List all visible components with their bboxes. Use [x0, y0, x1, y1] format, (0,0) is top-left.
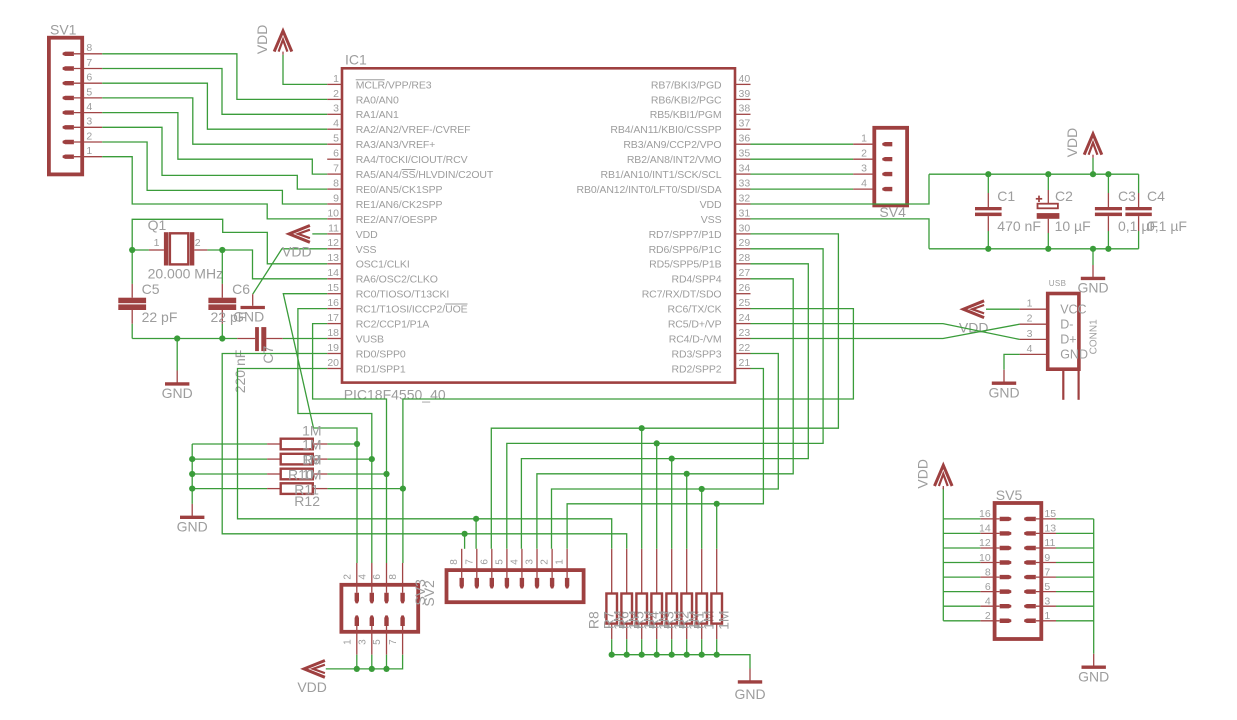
svg-text:3: 3	[357, 639, 368, 645]
wire IC pin33 to SV4 pin 4	[751, 188, 854, 190]
wire R col vertical from bus row	[641, 428, 643, 549]
SV5 pin 14 stub	[980, 532, 999, 534]
SV5 pin 13 stub	[1036, 532, 1056, 534]
resistor R8 1M (vertical)	[611, 549, 613, 594]
node junction on R rail	[189, 471, 195, 477]
svg-text:R1: R1	[691, 611, 707, 629]
wire SV5 pin 15 to GND rail	[1056, 518, 1094, 520]
IC1 left pin 20 stub	[327, 368, 342, 370]
svg-text:7: 7	[333, 163, 339, 175]
wire R6 bottom to gnd rail	[641, 639, 643, 655]
svg-text:7: 7	[464, 559, 475, 565]
svg-text:15: 15	[327, 282, 339, 294]
SV1 pin 1 contact	[63, 155, 74, 159]
wire SV5 pin 3 to GND rail	[1056, 605, 1094, 607]
SV4 pin 1 stub	[853, 143, 874, 145]
SV5 pin 3 contact	[1024, 604, 1036, 608]
svg-text:VDD: VDD	[356, 229, 378, 241]
wire SV5 GND rail	[1093, 519, 1095, 654]
svg-text:12: 12	[979, 537, 991, 549]
IC1 left pin 19 stub	[327, 353, 342, 355]
wire IC pin28 (RD5) to SV2 pin4 / R col5	[521, 264, 808, 549]
IC1 left pin 17 stub	[327, 323, 342, 325]
IC1 left pin 13 stub	[327, 263, 342, 265]
wire R12 left lead rail	[192, 488, 267, 490]
wire gnd rail to GND symbol	[176, 339, 178, 371]
svg-text:R7: R7	[601, 611, 617, 629]
svg-text:5: 5	[1044, 581, 1050, 593]
wire SV1.1 to IC pin10 (RE2)	[102, 157, 327, 219]
svg-text:1: 1	[555, 559, 566, 565]
svg-text:RE0/AN5/CK1SPP: RE0/AN5/CK1SPP	[356, 184, 443, 196]
svg-text:37: 37	[739, 118, 751, 130]
node junction R array gnd rail	[714, 652, 720, 658]
svg-text:28: 28	[739, 252, 751, 264]
node junction R9 tee on SV3 pin2 drop	[354, 441, 360, 447]
wire gnd stem from bottom rail	[1092, 249, 1094, 265]
IC1 right pin 26 stub	[735, 293, 751, 295]
power VDD arrow at cap rail	[1084, 134, 1102, 155]
svg-text:VCC: VCC	[1060, 302, 1086, 316]
IC1 left pin 14 stub	[327, 278, 342, 280]
wire R5 bottom to gnd rail	[656, 639, 658, 655]
IC1 right pin 37 stub	[735, 128, 751, 130]
IC1 right pin 25 stub	[735, 308, 751, 310]
SV5 pin 15 contact	[1024, 517, 1036, 521]
svg-text:1: 1	[1044, 610, 1050, 622]
IC1 right pin 28 stub	[735, 263, 751, 265]
IC1 left pin 8 stub	[327, 188, 342, 190]
capacitor C4 0,1 µF	[1138, 174, 1140, 193]
SV5 pin 14 contact	[1000, 531, 1012, 535]
node junction R array gnd rail	[669, 652, 675, 658]
wire SV3 bottom pins to VDD rail	[356, 655, 358, 669]
wire SV1.2 to IC pin9 (RE1)	[102, 142, 327, 204]
svg-text:GND: GND	[988, 384, 1019, 400]
wire R10 right lead to SV3 drop	[327, 458, 371, 460]
IC1 right pin 22 stub	[735, 353, 751, 355]
ground GND small (VSS)	[252, 294, 254, 306]
SV1 pin 4 stub	[74, 112, 102, 114]
wire IC pin31 (VSS) to cap rail	[751, 219, 930, 249]
svg-text:PIC18F4550_40: PIC18F4550_40	[344, 386, 446, 402]
power VDD flag at IC pin11	[289, 226, 310, 243]
IC1 right pin 23 stub	[735, 338, 751, 340]
svg-text:1: 1	[1027, 298, 1033, 310]
wire IC pin23 (RC4/D-) to CONN1 D- (crossing)	[751, 324, 1020, 338]
SV2 pin 3 contact	[535, 578, 539, 589]
svg-text:RC2/CCP1/P1A: RC2/CCP1/P1A	[356, 319, 430, 331]
wire C7 to IC pin18 (VUSB)	[283, 338, 328, 340]
connector CONN1 USB body	[1048, 294, 1079, 370]
IC1 right pin 29 stub	[735, 248, 751, 250]
wire crystal pin2 down to C6	[221, 250, 223, 284]
svg-text:23: 23	[739, 327, 751, 339]
SV2 pin 3 stub	[536, 549, 538, 578]
resistor R9 1M	[267, 443, 281, 445]
svg-text:7: 7	[86, 57, 92, 69]
svg-text:40: 40	[739, 73, 751, 85]
svg-text:2: 2	[86, 130, 92, 142]
SV3 pin 7 contact	[400, 615, 404, 626]
svg-text:4: 4	[509, 559, 520, 565]
IC1 left pin 12 stub	[327, 248, 342, 250]
CONN1 shield legs	[1062, 369, 1064, 400]
svg-text:GND: GND	[177, 518, 208, 534]
svg-text:3: 3	[1044, 595, 1050, 607]
svg-text:USB: USB	[1049, 279, 1067, 288]
wire R11 right lead to SV3 drop	[327, 473, 386, 475]
wire crystal pin1 down to C5	[131, 250, 133, 284]
wire R array gnd rail	[612, 655, 750, 669]
svg-text:3: 3	[86, 116, 92, 128]
svg-text:6: 6	[333, 148, 339, 160]
SV1 pin 8 stub	[74, 53, 102, 55]
node junction on R col	[639, 425, 645, 431]
node junction R array gnd rail	[639, 652, 645, 658]
svg-text:R12: R12	[294, 493, 320, 509]
svg-text:VUSB: VUSB	[356, 333, 384, 345]
svg-text:22 pF: 22 pF	[142, 309, 178, 325]
svg-text:33: 33	[739, 178, 751, 190]
node crystal pin2 junction	[219, 247, 225, 253]
IC1 right pin 36 stub	[735, 143, 751, 145]
SV4 pin 3 contact	[882, 172, 892, 176]
svg-text:15: 15	[1044, 508, 1056, 520]
node junction on R col	[669, 456, 675, 462]
svg-text:1: 1	[861, 133, 867, 145]
crystal Q1	[149, 249, 164, 251]
wire SV1.7 to IC pin3 (RA1)	[102, 69, 327, 115]
SV5 pin 2 stub	[980, 620, 999, 622]
IC U1 PIC18F4550 body	[342, 68, 735, 382]
svg-text:220 nF: 220 nF	[232, 350, 248, 394]
wire R2 bottom to gnd rail	[701, 639, 703, 655]
svg-text:16: 16	[979, 508, 991, 520]
power VDD arrow (MCLR pull-up)	[274, 31, 292, 52]
svg-text:R3: R3	[661, 611, 677, 629]
svg-text:6: 6	[985, 581, 991, 593]
SV1 pin 7 stub	[74, 68, 102, 70]
svg-text:RD4/SPP4: RD4/SPP4	[672, 274, 722, 286]
node junction R array gnd rail	[624, 652, 630, 658]
svg-text:RA0/AN0: RA0/AN0	[356, 94, 399, 106]
SV3 pin 1 stub	[356, 626, 358, 655]
SV1 pin 3 stub	[74, 126, 102, 128]
svg-text:20: 20	[327, 357, 339, 369]
wire R1 bottom to gnd rail	[716, 639, 718, 655]
IC1 left pin 16 stub	[327, 308, 342, 310]
SV3 pin 1 contact	[355, 615, 359, 626]
wire IC pin32 (VDD) to cap rail	[751, 174, 930, 204]
SV1 pin 5 stub	[74, 97, 102, 99]
svg-text:5: 5	[333, 133, 339, 145]
SV2 pin 4 stub	[521, 549, 523, 578]
svg-text:SV4: SV4	[879, 204, 906, 220]
svg-text:1M: 1M	[302, 467, 321, 483]
SV2 pin 2 stub	[551, 549, 553, 578]
wire OSC1 loop: crystal pin1 to IC pin13	[132, 219, 327, 263]
wire SV5 pin 16 to VDD rail	[943, 518, 980, 520]
SV4 pin 2 stub	[853, 158, 874, 160]
CONN1 pin 3 stub	[1020, 338, 1048, 340]
svg-text:11: 11	[1044, 537, 1055, 549]
wire IC pin25 (RC6) to SV3 pin8	[403, 309, 854, 563]
svg-text:7: 7	[388, 639, 399, 645]
svg-text:2: 2	[333, 88, 339, 100]
wire IC pin36 to SV4 pin 1	[751, 143, 854, 145]
svg-text:VSS: VSS	[701, 214, 722, 226]
SV3 pin 6 contact	[384, 593, 388, 604]
svg-text:3: 3	[1027, 328, 1033, 340]
resistor R6 1M (vertical)	[641, 549, 643, 594]
IC1 left pin 7 stub	[327, 173, 342, 175]
ground GND at cap rail	[1092, 265, 1094, 277]
SV5 pin 2 contact	[1000, 619, 1012, 624]
capacitor C7 220nF	[237, 338, 255, 340]
SV3 pin 2 stub	[356, 563, 358, 593]
svg-text:SV2: SV2	[421, 580, 437, 607]
svg-text:GND: GND	[1077, 280, 1108, 296]
wire R10 left lead rail	[192, 458, 267, 460]
SV2 pin 5 contact	[505, 578, 509, 589]
wire IC pin27 (RD4) to SV2 pin3 / R col6	[537, 279, 793, 549]
IC1 right pin 34 stub	[735, 173, 751, 175]
wire SV5 pin 10 to VDD rail	[943, 562, 980, 564]
wire R4 bottom to gnd rail	[671, 639, 673, 655]
svg-text:RD3/SPP3: RD3/SPP3	[672, 348, 722, 360]
svg-text:VDD: VDD	[282, 244, 312, 260]
svg-text:GND: GND	[734, 686, 765, 702]
wire SV5 VDD rail	[942, 488, 944, 621]
SV5 pin 6 contact	[1000, 589, 1012, 594]
svg-text:R8: R8	[586, 611, 602, 629]
overline on UOE (pin 16)	[445, 303, 467, 305]
svg-text:1M: 1M	[302, 436, 321, 452]
node junction R12 tee on SV3 pin8 drop	[400, 486, 406, 492]
wire IC pin16 (RC1) to SV3 pin4	[298, 309, 372, 563]
svg-text:IC1: IC1	[345, 52, 367, 68]
SV1 pin 4 contact	[63, 110, 74, 114]
SV5 pin 15 stub	[1036, 518, 1056, 520]
svg-text:31: 31	[739, 207, 751, 219]
SV2 pin 6 contact	[490, 578, 494, 589]
IC1 right pin 35 stub	[735, 158, 751, 160]
svg-text:19: 19	[327, 342, 339, 354]
svg-text:RB0/AN12/INT0/LFT0/SDI/SDA: RB0/AN12/INT0/LFT0/SDI/SDA	[576, 184, 721, 196]
svg-text:D+: D+	[1060, 333, 1076, 347]
IC1 right pin 24 stub	[735, 323, 751, 325]
svg-text:RA1/AN1: RA1/AN1	[356, 109, 399, 121]
svg-text:16: 16	[327, 297, 339, 309]
svg-text:2: 2	[540, 559, 551, 565]
SV1 pin 8 contact	[63, 52, 74, 56]
svg-text:RC5/D+/VP: RC5/D+/VP	[668, 319, 722, 331]
SV2 pin 6 stub	[491, 549, 493, 578]
IC1 right pin 32 stub	[735, 203, 751, 205]
svg-text:RA6/OSC2/CLKO: RA6/OSC2/CLKO	[356, 274, 438, 286]
SV4 pin 1 contact	[882, 142, 892, 146]
svg-text:1: 1	[154, 237, 160, 249]
IC1 left pin 5 stub	[327, 143, 342, 145]
wire VDD arrow stem	[1092, 158, 1094, 174]
svg-text:RD1/SPP1: RD1/SPP1	[356, 363, 406, 375]
wire R11 left lead rail	[192, 473, 267, 475]
svg-text:18: 18	[327, 327, 339, 339]
SV5 pin 5 stub	[1036, 591, 1056, 593]
wire crystal pin1 junction	[132, 249, 149, 251]
svg-text:GND: GND	[233, 308, 264, 324]
node gnd rail junction at C6	[219, 335, 225, 341]
IC1 right pin 27 stub	[735, 278, 751, 280]
svg-text:RC7/RX/DT/SDO: RC7/RX/DT/SDO	[642, 289, 722, 301]
wire R9 left lead rail	[192, 443, 267, 445]
svg-text:SV5: SV5	[996, 487, 1023, 503]
node junction R array gnd rail	[684, 652, 690, 658]
node junction on R col	[654, 440, 660, 446]
SV1 pin 6 stub	[74, 82, 102, 84]
svg-text:6: 6	[479, 559, 490, 565]
wire cap bottom rail GND	[929, 248, 1139, 250]
IC1 right pin 38 stub	[735, 113, 751, 115]
SV2 pin 7 contact	[475, 578, 479, 589]
svg-text:3: 3	[333, 103, 339, 115]
CONN1 pin 2 stub	[1020, 323, 1048, 325]
svg-text:8: 8	[333, 178, 339, 190]
node junctions C1 rails	[985, 171, 991, 177]
svg-text:0,1 µF: 0,1 µF	[1147, 218, 1187, 234]
svg-text:3: 3	[525, 559, 536, 565]
SV5 pin 12 contact	[1000, 546, 1012, 550]
svg-text:RD0/SPP0: RD0/SPP0	[356, 348, 406, 360]
SV4 pin 3 stub	[853, 173, 874, 175]
svg-text:4: 4	[861, 178, 867, 190]
node junction R array gnd rail	[654, 652, 660, 658]
node crystal pin1 junction	[129, 247, 135, 253]
svg-text:VDD: VDD	[254, 25, 270, 55]
wire SV5 pin 7 to GND rail	[1056, 576, 1094, 578]
wire R col vertical from bus row	[671, 459, 673, 549]
SV5 pin 9 stub	[1036, 562, 1056, 564]
svg-text:RA3/AN3/VREF+: RA3/AN3/VREF+	[356, 139, 436, 151]
svg-text:R5: R5	[631, 611, 647, 629]
SV3 pin 4 contact	[370, 593, 374, 604]
wire IC pin12 (VSS) to gnd diagonal	[253, 249, 328, 294]
SV5 pin 8 contact	[1000, 575, 1012, 579]
svg-text:470 nF: 470 nF	[997, 218, 1041, 234]
node junction R11 tee on SV3 pin6 drop	[383, 471, 389, 477]
svg-text:MCLR/VPP/RE3: MCLR/VPP/RE3	[356, 79, 432, 91]
wire R12 right lead to SV3 drop	[327, 488, 403, 490]
node junction SV2 pin7 tee	[473, 516, 479, 522]
svg-text:GND: GND	[1078, 668, 1109, 684]
wire SV5 pin 1 to GND rail	[1056, 620, 1094, 622]
resistor R1 1M (vertical)	[716, 549, 718, 594]
wire SV2 pin7 drop	[475, 519, 477, 549]
svg-text:2: 2	[985, 610, 991, 622]
wire SV5 pin 4 to VDD rail	[943, 605, 980, 607]
svg-text:RB6/KBI2/PGC: RB6/KBI2/PGC	[651, 94, 722, 106]
svg-text:6: 6	[86, 72, 92, 84]
ground GND at SV5	[1093, 654, 1095, 666]
wire SV5 pin 11 to GND rail	[1056, 547, 1094, 549]
svg-text:RA4/T0CKI/CIOUT/RCV: RA4/T0CKI/CIOUT/RCV	[356, 154, 468, 166]
overline on SS (pin 7)	[402, 169, 416, 171]
svg-text:2: 2	[1027, 313, 1033, 325]
wire IC pin24 (RC5/D+) to CONN1 D+ (crossing)	[751, 324, 1020, 340]
svg-text:RE1/AN6/CK2SPP: RE1/AN6/CK2SPP	[356, 199, 443, 211]
SV1 pin 2 contact	[63, 140, 74, 144]
wire SV1.4 to IC pin7 (RA5)	[102, 113, 327, 175]
resistor R3 1M (vertical)	[686, 549, 688, 594]
svg-text:14: 14	[327, 267, 339, 279]
SV3 pin 6 stub	[386, 563, 388, 593]
svg-text:R4: R4	[646, 611, 662, 629]
IC1 left pin 1 stub	[327, 83, 342, 85]
svg-text:OSC1/CLKI: OSC1/CLKI	[356, 259, 410, 271]
svg-text:11: 11	[328, 222, 339, 234]
svg-text:RB3/AN9/CCP2/VPO: RB3/AN9/CCP2/VPO	[623, 139, 721, 151]
svg-text:17: 17	[327, 312, 339, 324]
SV1 pin 7 contact	[63, 66, 74, 70]
svg-text:VSS: VSS	[356, 244, 377, 256]
SV4 pin 4 stub	[853, 188, 874, 190]
wire SV5 pin 2 to VDD rail	[943, 620, 980, 622]
IC1 left pin 10 stub	[327, 218, 342, 220]
resistor R4 1M (vertical)	[671, 549, 673, 594]
svg-text:4: 4	[357, 574, 368, 580]
wire SV5 pin 14 to VDD rail	[943, 532, 980, 534]
svg-text:27: 27	[739, 267, 751, 279]
svg-text:8: 8	[388, 574, 399, 580]
svg-text:21: 21	[739, 357, 751, 369]
svg-text:34: 34	[739, 163, 751, 175]
wire SV1.3 to IC pin8 (RE0)	[102, 127, 327, 189]
capacitor C3 0,1 µF	[1107, 174, 1109, 193]
wire R7 bottom to gnd rail	[626, 639, 628, 655]
svg-text:24: 24	[739, 312, 751, 324]
svg-text:RD2/SPP2: RD2/SPP2	[672, 363, 722, 375]
resistor R7 1M (vertical)	[626, 549, 628, 594]
SV5 pin 3 stub	[1036, 605, 1056, 607]
svg-text:RB4/AN11/KBI0/CSSPP: RB4/AN11/KBI0/CSSPP	[610, 124, 721, 136]
SV2 pin 8 stub	[461, 549, 463, 578]
wire R col vertical from bus row	[701, 489, 703, 549]
svg-text:12: 12	[327, 237, 339, 249]
connector SV5 body	[995, 503, 1042, 639]
wire R col vertical from bus row	[656, 443, 658, 548]
svg-text:5: 5	[372, 639, 383, 645]
wire C5 to gnd rail	[131, 324, 133, 339]
svg-text:1: 1	[86, 145, 92, 157]
wire SV5 pin 6 to VDD rail	[943, 591, 980, 593]
wire R col vertical from bus row	[686, 474, 688, 549]
svg-text:1M: 1M	[302, 452, 321, 468]
SV3 pin 5 stub	[386, 626, 388, 655]
capacitor C1 470 nF	[987, 174, 989, 193]
svg-text:4: 4	[86, 101, 92, 113]
svg-text:6: 6	[372, 574, 383, 580]
wire VCC to VDD flag	[986, 308, 1020, 310]
svg-text:CONN1: CONN1	[1089, 319, 1100, 354]
IC1 left pin 18 stub	[327, 338, 342, 340]
svg-text:9: 9	[1044, 552, 1050, 564]
ground GND for R array	[749, 669, 751, 681]
SV5 pin 1 stub	[1036, 620, 1056, 622]
ground GND below crystal	[176, 371, 178, 383]
SV5 pin 11 stub	[1036, 547, 1056, 549]
wire SV5 pin 12 to VDD rail	[943, 547, 980, 549]
